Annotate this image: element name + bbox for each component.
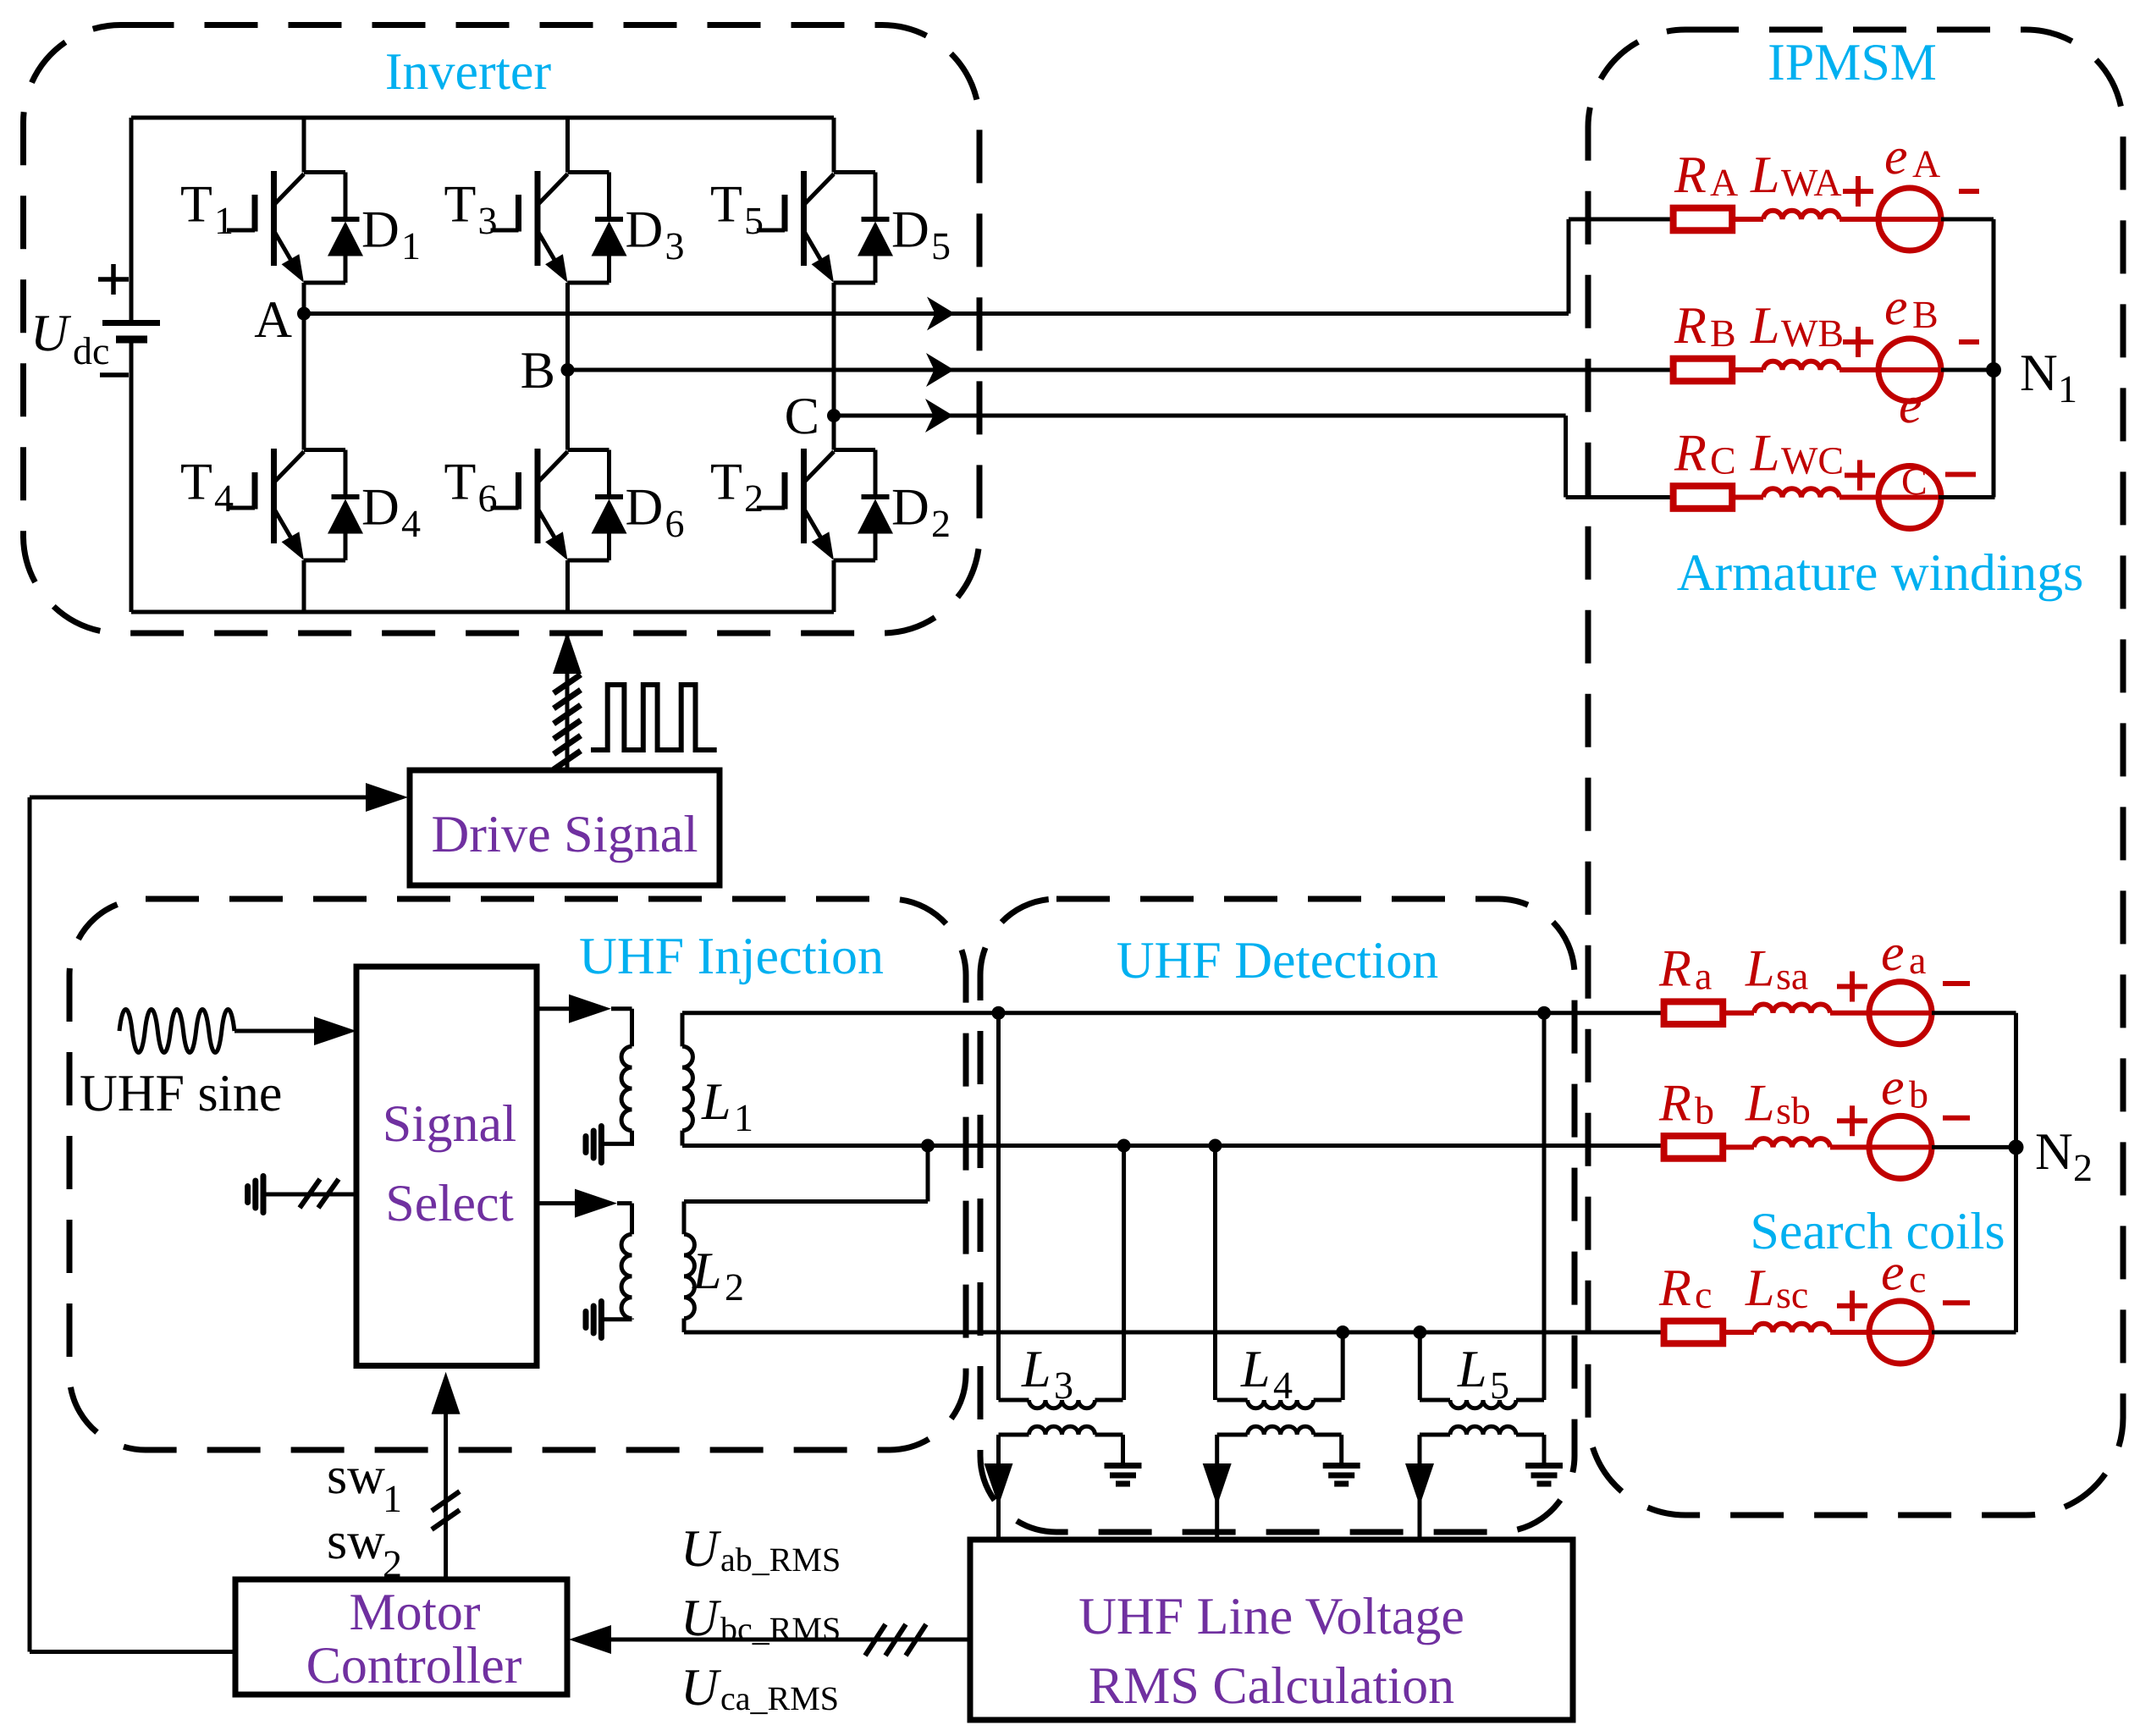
svg-text:T: T bbox=[710, 454, 742, 511]
svg-text:4: 4 bbox=[401, 502, 421, 545]
transistor T6 with diode D6 bbox=[491, 449, 627, 560]
svg-text:L: L bbox=[1750, 297, 1779, 355]
plus sign phase A bbox=[1843, 176, 1873, 207]
svg-text:sw: sw bbox=[327, 1513, 385, 1570]
wire Motor Controller feedback loop bbox=[30, 797, 235, 1652]
svg-text:sb: sb bbox=[1776, 1088, 1811, 1132]
svg-text:c: c bbox=[1695, 1273, 1712, 1316]
svg-text:a: a bbox=[1909, 939, 1926, 982]
svg-text:L: L bbox=[1750, 425, 1779, 482]
battery minus sign bbox=[100, 372, 129, 378]
svg-text:T: T bbox=[710, 176, 742, 234]
svg-text:dc: dc bbox=[73, 329, 109, 372]
wire row b (L1 bottom to Rb) bbox=[682, 1144, 1664, 1148]
hash marks on RMS wire bbox=[865, 1624, 926, 1656]
svg-text:U: U bbox=[681, 1520, 722, 1578]
svg-text:B: B bbox=[1710, 311, 1736, 355]
svg-text:A: A bbox=[1710, 161, 1738, 204]
svg-text:IPMSM: IPMSM bbox=[1768, 34, 1937, 91]
svg-text:e: e bbox=[1881, 924, 1905, 982]
plus sign coil c bbox=[1837, 1291, 1867, 1321]
ground at Signal Select second input bbox=[248, 1177, 263, 1213]
svg-text:D: D bbox=[891, 201, 929, 259]
svg-text:R: R bbox=[1658, 1259, 1691, 1317]
svg-text:bc_RMS: bc_RMS bbox=[720, 1610, 841, 1648]
svg-text:UHF Line Voltage: UHF Line Voltage bbox=[1078, 1588, 1464, 1645]
svg-text:R: R bbox=[1674, 146, 1707, 204]
svg-text:ca_RMS: ca_RMS bbox=[720, 1679, 839, 1717]
wire top DC bus bbox=[131, 116, 834, 120]
node row b at L3 bbox=[1117, 1139, 1131, 1153]
svg-text:Drive Signal: Drive Signal bbox=[431, 806, 698, 863]
svg-text:L: L bbox=[1750, 146, 1779, 204]
minus sign phase B bbox=[1959, 339, 1979, 344]
svg-text:2: 2 bbox=[725, 1265, 744, 1309]
wire L3 left leg to row a bbox=[996, 1013, 1001, 1400]
UHF sine source symbol bbox=[119, 1010, 234, 1053]
svg-text:D: D bbox=[361, 479, 400, 537]
node C bbox=[827, 409, 841, 422]
svg-text:T: T bbox=[444, 454, 477, 511]
wire battery bottom lead bbox=[130, 342, 134, 612]
wire phase B to motor bbox=[568, 368, 1674, 372]
minus sign coil c bbox=[1943, 1300, 1970, 1305]
node N1 bbox=[1986, 362, 2001, 378]
svg-text:5: 5 bbox=[744, 199, 764, 242]
wire feedback into Drive Signal bbox=[30, 796, 366, 800]
svg-text:2: 2 bbox=[2073, 1146, 2093, 1189]
ground of T2 primary bbox=[586, 1302, 601, 1338]
plus sign phase B bbox=[1843, 327, 1873, 357]
minus sign coil b bbox=[1943, 1116, 1970, 1121]
wire leg C lower bbox=[832, 560, 836, 612]
transistor T3 with diode D3 bbox=[491, 171, 627, 283]
transformer L5 with ground bbox=[1420, 1400, 1563, 1484]
phase A winding row: resistor RA, inductor LWA, emf source eA bbox=[1674, 188, 1941, 251]
svg-text:T: T bbox=[180, 176, 212, 234]
svg-text:e: e bbox=[1884, 278, 1908, 336]
svg-text:A: A bbox=[254, 291, 292, 349]
wire Signal Select output 1 bbox=[537, 1006, 572, 1011]
svg-text:D: D bbox=[891, 479, 929, 537]
svg-text:e: e bbox=[1881, 1243, 1905, 1301]
wire ground to Signal Select bbox=[263, 1193, 356, 1197]
svg-text:U: U bbox=[30, 305, 72, 362]
svg-text:L: L bbox=[1745, 1259, 1774, 1317]
wire bottom DC bus bbox=[131, 610, 834, 614]
coil c row: resistor Rc, inductor Lsc, emf ec bbox=[1664, 1301, 1932, 1364]
svg-text:L: L bbox=[701, 1073, 731, 1131]
wire RMS to Motor Controller bbox=[611, 1638, 970, 1642]
svg-text:WA: WA bbox=[1781, 161, 1842, 204]
PWM waveform symbol bbox=[591, 685, 717, 750]
battery Udc plates bbox=[102, 320, 160, 326]
wire Drive Signal to inverter bbox=[565, 635, 570, 770]
transistor T2 with diode D2 bbox=[757, 449, 893, 560]
wire star bus N2 bbox=[2014, 1013, 2018, 1332]
hash marks on ground input wire bbox=[300, 1179, 339, 1208]
svg-text:4: 4 bbox=[1273, 1364, 1293, 1407]
svg-text:3: 3 bbox=[1054, 1364, 1073, 1407]
node row b at L4 bbox=[1209, 1139, 1222, 1153]
svg-text:A: A bbox=[1912, 142, 1940, 185]
svg-text:c: c bbox=[1909, 1257, 1926, 1300]
transformer L3 with ground bbox=[999, 1400, 1142, 1484]
wire battery top lead bbox=[130, 118, 134, 320]
svg-text:1: 1 bbox=[734, 1096, 753, 1139]
svg-text:2: 2 bbox=[931, 502, 951, 545]
wire L5 secondary to RMS box bbox=[1418, 1435, 1422, 1540]
wire leg A lower bbox=[302, 560, 306, 612]
wire coil c to star point bbox=[1932, 1331, 2016, 1335]
ground of T1 primary bbox=[586, 1127, 601, 1163]
svg-text:B: B bbox=[521, 342, 555, 400]
svg-text:1: 1 bbox=[401, 224, 421, 267]
minus sign coil a bbox=[1943, 981, 1970, 986]
transformer T2 primary winding bbox=[630, 1204, 634, 1235]
bus hash marks on drive signal wire bbox=[554, 675, 581, 769]
wire L4 left leg to row b bbox=[1213, 1146, 1217, 1401]
svg-text:a: a bbox=[1695, 955, 1712, 998]
svg-text:N: N bbox=[2020, 344, 2058, 402]
svg-text:1: 1 bbox=[214, 199, 234, 242]
svg-text:L: L bbox=[1745, 1074, 1774, 1132]
node row a left bbox=[992, 1006, 1006, 1020]
minus sign phase A bbox=[1959, 189, 1979, 194]
wire phase C to motor bbox=[834, 416, 1674, 498]
plus sign phase C bbox=[1845, 460, 1875, 491]
svg-text:C: C bbox=[785, 388, 819, 445]
wire phase B to star point bbox=[1941, 368, 1994, 372]
svg-text:6: 6 bbox=[665, 502, 685, 545]
wire phase C to star point bbox=[1939, 495, 1995, 499]
svg-text:Controller: Controller bbox=[306, 1637, 522, 1695]
wire L3 secondary to RMS box bbox=[996, 1435, 1001, 1540]
node B bbox=[561, 363, 575, 377]
node row b at L2 link bbox=[921, 1139, 935, 1153]
node row c at L4 bbox=[1336, 1325, 1349, 1339]
wire phase A to star point bbox=[1941, 218, 1994, 222]
svg-text:L: L bbox=[1457, 1341, 1486, 1398]
phase C winding row: resistor RC, inductor LWC, emf source eC bbox=[1674, 466, 1941, 529]
wire leg A middle bbox=[302, 283, 306, 450]
wire leg C middle bbox=[832, 283, 836, 450]
svg-text:R: R bbox=[1674, 425, 1707, 482]
svg-text:3: 3 bbox=[478, 199, 498, 242]
wire leg A upper bbox=[302, 118, 306, 173]
svg-text:L: L bbox=[1021, 1341, 1051, 1398]
svg-text:e: e bbox=[1881, 1059, 1905, 1116]
minus sign phase C bbox=[1945, 472, 1976, 477]
svg-text:B: B bbox=[1912, 293, 1939, 336]
svg-text:sw: sw bbox=[327, 1447, 385, 1505]
coil a row: resistor Ra, inductor Lsa, emf ea bbox=[1664, 982, 1932, 1044]
svg-text:C: C bbox=[1901, 460, 1928, 503]
svg-text:sc: sc bbox=[1776, 1273, 1808, 1316]
svg-text:b: b bbox=[1695, 1088, 1714, 1132]
wire L5 left leg to row c bbox=[1418, 1332, 1422, 1400]
svg-text:Armature windings: Armature windings bbox=[1677, 544, 2083, 602]
svg-text:6: 6 bbox=[478, 477, 498, 520]
svg-text:D: D bbox=[626, 479, 664, 537]
node A bbox=[297, 307, 311, 321]
svg-text:WC: WC bbox=[1781, 439, 1844, 482]
node N2 bbox=[2009, 1139, 2024, 1155]
phase B winding row: resistor RB, inductor LWB, emf source eB bbox=[1674, 339, 1941, 401]
svg-text:Signal: Signal bbox=[383, 1095, 516, 1153]
transistor T1 with diode D1 bbox=[227, 171, 363, 283]
wire phase A to motor bbox=[304, 219, 1674, 314]
plus sign coil a bbox=[1837, 972, 1867, 1002]
svg-text:RMS Calculation: RMS Calculation bbox=[1089, 1657, 1454, 1715]
battery plus sign bbox=[98, 264, 129, 295]
svg-text:UHF Detection: UHF Detection bbox=[1117, 932, 1439, 989]
svg-text:C: C bbox=[1710, 439, 1736, 482]
wire L4 right leg to row c bbox=[1341, 1332, 1345, 1400]
wire UHF sine to Signal Select bbox=[234, 1029, 316, 1033]
wire L3 right leg to row b bbox=[1122, 1146, 1126, 1401]
svg-text:L: L bbox=[1240, 1341, 1270, 1398]
wire Motor Controller to Signal Select bbox=[444, 1412, 448, 1579]
wire leg B middle bbox=[565, 283, 570, 450]
svg-text:R: R bbox=[1658, 1074, 1691, 1132]
svg-text:2: 2 bbox=[744, 477, 764, 520]
svg-text:ab_RMS: ab_RMS bbox=[720, 1540, 841, 1579]
svg-text:e: e bbox=[1884, 128, 1908, 185]
svg-text:5: 5 bbox=[1490, 1364, 1509, 1407]
wire L2 secondary top to row b bbox=[684, 1146, 928, 1202]
wire leg C upper bbox=[832, 118, 836, 173]
svg-text:b: b bbox=[1909, 1073, 1928, 1116]
svg-text:D: D bbox=[626, 201, 664, 259]
svg-text:1: 1 bbox=[2058, 367, 2077, 411]
wire leg B upper bbox=[565, 118, 570, 173]
wire leg B lower bbox=[565, 560, 570, 612]
svg-text:4: 4 bbox=[214, 477, 234, 520]
IPMSM dashed box bbox=[1588, 30, 2123, 1515]
wire row c (L2 bottom to Rc) bbox=[684, 1331, 1664, 1335]
svg-text:L: L bbox=[1745, 940, 1774, 998]
wire coil a to star point bbox=[1932, 1011, 2016, 1015]
wire coil b to star point bbox=[1932, 1145, 2016, 1149]
svg-text:T: T bbox=[444, 176, 477, 234]
svg-text:Search coils: Search coils bbox=[1750, 1203, 2005, 1260]
svg-text:5: 5 bbox=[931, 224, 951, 267]
svg-text:2: 2 bbox=[383, 1542, 402, 1585]
Drive Signal box bbox=[410, 770, 720, 885]
svg-text:N: N bbox=[2035, 1123, 2073, 1181]
transformer T2 secondary winding L2 bbox=[682, 1202, 687, 1235]
node row c at L5 bbox=[1413, 1325, 1426, 1339]
svg-text:U: U bbox=[681, 1659, 722, 1717]
svg-text:UHF Injection: UHF Injection bbox=[579, 928, 884, 985]
svg-text:WB: WB bbox=[1781, 311, 1844, 355]
svg-text:R: R bbox=[1674, 297, 1707, 355]
UHF Detection dashed box bbox=[980, 899, 1575, 1532]
svg-text:Inverter: Inverter bbox=[385, 43, 552, 101]
svg-text:L: L bbox=[692, 1243, 721, 1300]
svg-text:D: D bbox=[361, 201, 400, 259]
wire Signal Select output 2 bbox=[537, 1201, 575, 1205]
wire L5 right leg to row a bbox=[1542, 1013, 1547, 1400]
svg-text:sa: sa bbox=[1776, 955, 1808, 998]
Inverter dashed box bbox=[24, 25, 980, 634]
svg-text:e: e bbox=[1899, 377, 1922, 434]
transformer T1 primary winding bbox=[630, 1009, 634, 1047]
transformer T1 secondary winding L1 bbox=[681, 1013, 685, 1047]
transformer L4 with ground bbox=[1217, 1400, 1360, 1484]
svg-text:3: 3 bbox=[665, 224, 685, 267]
svg-text:Select: Select bbox=[385, 1175, 514, 1232]
wire row a (L1 top to Ra) bbox=[682, 1011, 1664, 1015]
svg-text:U: U bbox=[681, 1590, 722, 1647]
transistor T4 with diode D4 bbox=[227, 449, 363, 560]
wire L4 secondary to RMS box bbox=[1215, 1435, 1219, 1540]
svg-text:T: T bbox=[180, 454, 212, 511]
hash marks on sw wire bbox=[432, 1491, 460, 1529]
transistor T5 with diode D5 bbox=[757, 171, 893, 283]
wire star bus N1 bbox=[1992, 219, 1996, 498]
UHF Injection dashed box bbox=[69, 899, 966, 1450]
svg-text:1: 1 bbox=[383, 1477, 402, 1520]
svg-text:UHF sine: UHF sine bbox=[80, 1065, 282, 1122]
svg-text:Motor: Motor bbox=[350, 1584, 481, 1641]
coil b row: resistor Rb, inductor Lsb, emf eb bbox=[1664, 1116, 1932, 1178]
svg-text:R: R bbox=[1658, 940, 1691, 998]
plus sign coil b bbox=[1837, 1105, 1867, 1136]
Signal Select box bbox=[356, 967, 537, 1366]
node row a right bbox=[1537, 1006, 1551, 1020]
